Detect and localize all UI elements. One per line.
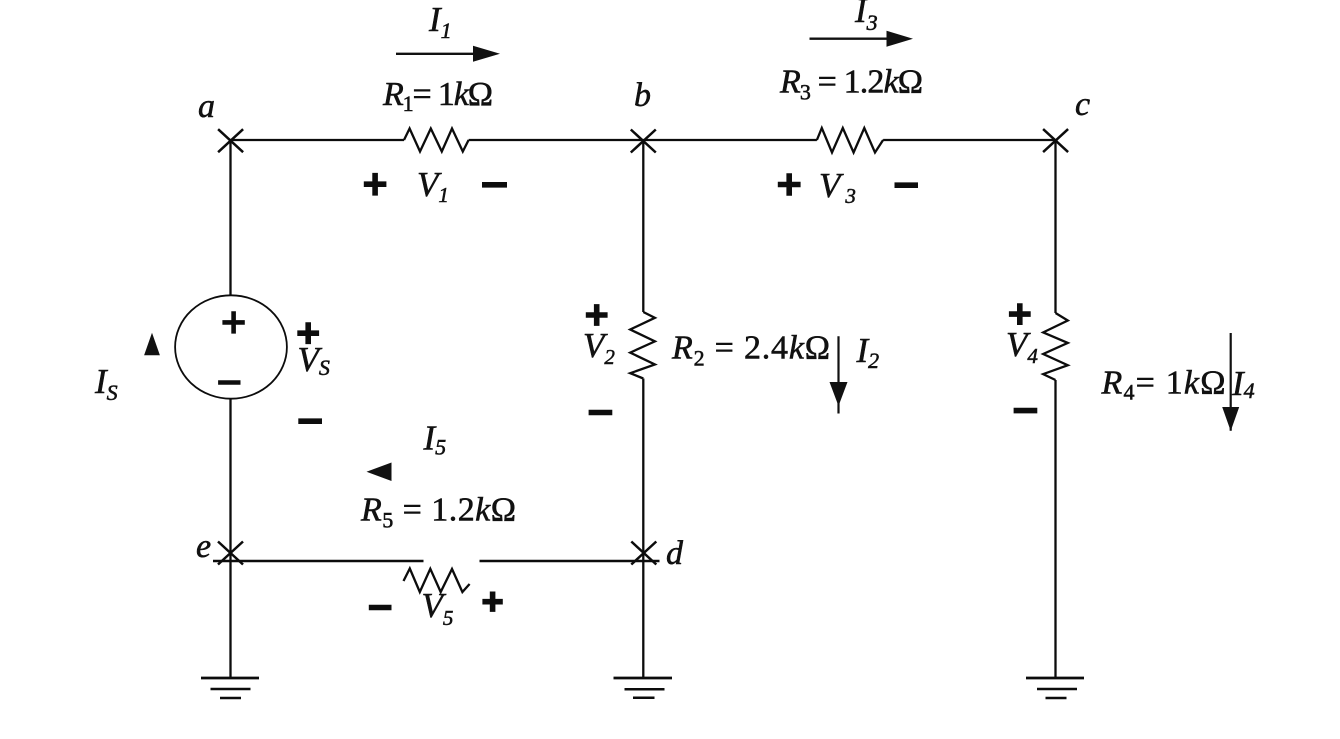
minus sign V1 xyxy=(482,182,507,188)
minus sign V3 xyxy=(895,182,919,188)
wire R4-ground xyxy=(1054,380,1056,678)
resistor R3 xyxy=(817,128,883,153)
source VS circle xyxy=(175,295,287,398)
arrow I5 (left triangle) xyxy=(367,463,392,482)
arrow I2 xyxy=(830,336,848,413)
wire R2-d-ground xyxy=(642,379,644,679)
plus sign V1 xyxy=(297,173,1037,612)
ground under c xyxy=(1026,677,1084,680)
node e xyxy=(218,542,243,565)
svg-text:I5: I5 xyxy=(423,419,447,460)
plus sign inside source xyxy=(218,311,245,382)
wire a-source xyxy=(229,140,231,295)
minus sign V4 xyxy=(1014,408,1038,414)
svg-text:I3: I3 xyxy=(854,0,878,35)
wire c-R4 xyxy=(1054,140,1056,313)
wire b-R2 xyxy=(642,140,644,312)
arrow IS (up triangle) xyxy=(144,333,160,356)
svg-text:I1: I1 xyxy=(428,0,452,43)
svg-text:a: a xyxy=(198,88,215,125)
svg-text:e: e xyxy=(196,528,211,565)
svg-text:I2: I2 xyxy=(856,331,880,373)
plus sign VS outer xyxy=(297,322,319,344)
wire top a-R1 xyxy=(231,139,405,141)
node c xyxy=(1043,129,1068,152)
wire R1-R3 xyxy=(469,139,817,141)
ground under e xyxy=(201,677,259,680)
arrow I1 xyxy=(396,46,500,62)
svg-text:R3 = 1.2kΩ: R3 = 1.2kΩ xyxy=(779,64,923,105)
svg-text:V2: V2 xyxy=(583,326,615,369)
resistor R4 xyxy=(1043,313,1068,380)
svg-text:I4: I4 xyxy=(1231,364,1255,403)
svg-text:c: c xyxy=(1075,86,1090,123)
minus sign V2 xyxy=(589,410,613,416)
svg-text:IS: IS xyxy=(94,362,118,405)
resistor R2 xyxy=(630,312,655,379)
resistor R5 xyxy=(404,569,470,593)
svg-text:b: b xyxy=(634,77,651,114)
plus sign V5 xyxy=(482,592,502,612)
wire e-R5 xyxy=(213,560,424,563)
wire source-e xyxy=(229,399,231,678)
svg-text:V4: V4 xyxy=(1006,325,1038,368)
svg-text:V1: V1 xyxy=(417,165,449,207)
minus sign V5 xyxy=(369,605,392,611)
ground under d xyxy=(614,677,673,680)
resistor R1 xyxy=(404,129,469,152)
arrow I3 xyxy=(810,31,914,47)
svg-text:R1= 1kΩ: R1= 1kΩ xyxy=(382,76,493,116)
plus sign V2 xyxy=(586,304,608,326)
node b xyxy=(631,130,656,153)
wire R3-c xyxy=(883,139,1055,141)
svg-text:R4= 1kΩ: R4= 1kΩ xyxy=(1101,365,1226,405)
node d xyxy=(631,542,656,565)
minus sign inside source xyxy=(218,380,240,385)
svg-text:V3: V3 xyxy=(819,166,856,208)
svg-text:VS: VS xyxy=(298,340,330,380)
plus sign V3 xyxy=(778,173,801,196)
plus sign V4 xyxy=(1009,303,1031,325)
arrow I4 xyxy=(1222,333,1239,431)
svg-text:R5 = 1.2kΩ: R5 = 1.2kΩ xyxy=(360,492,516,533)
svg-text:R2 = 2.4kΩ: R2 = 2.4kΩ xyxy=(671,330,830,371)
wire R5-d xyxy=(480,560,660,563)
svg-text:d: d xyxy=(666,535,684,572)
svg-text:V5: V5 xyxy=(422,586,454,630)
minus sign VS outer xyxy=(298,418,322,424)
node a xyxy=(218,129,243,152)
